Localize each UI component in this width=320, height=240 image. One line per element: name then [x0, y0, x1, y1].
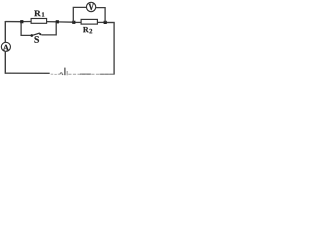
wire left vertical lower: [4, 51, 6, 74]
label S: [34, 36, 39, 43]
battery cell small mark: [60, 73, 63, 75]
wire voltmeter branch right riser: [96, 8, 105, 23]
node 3: [72, 21, 75, 24]
wire node3 to R2: [74, 21, 81, 23]
wire right vertical: [113, 23, 115, 75]
wire voltmeter branch left riser: [73, 7, 86, 22]
wire switch branch left riser: [21, 23, 30, 36]
label R1: [34, 11, 41, 17]
battery long plate: [64, 68, 66, 76]
wire bottom-right horizontal faint dashed: [68, 73, 114, 75]
wire left vertical upper: [4, 21, 6, 43]
node 1: [20, 20, 23, 23]
wire bottom-left horizontal: [5, 72, 49, 74]
wire R2 to node4: [97, 21, 105, 23]
wire R1 to node2: [46, 21, 57, 23]
node 2: [56, 20, 59, 23]
resistor R2: [81, 19, 97, 24]
wire bottom-right horizontal darker segment 1: [80, 73, 91, 75]
ammeter A circle: [1, 42, 10, 51]
voltmeter V letter: [89, 4, 94, 10]
resistor R1: [31, 19, 46, 24]
wire node2 to node3: [58, 21, 75, 23]
switch S left contact: [30, 34, 33, 37]
switch S right contact: [39, 33, 41, 35]
battery dashes left: [51, 73, 54, 75]
voltmeter V circle: [86, 2, 95, 11]
wire switch branch right riser: [41, 23, 56, 35]
label R2: [83, 27, 89, 32]
battery short plate faint: [66, 71, 68, 75]
switch S lever: [33, 33, 40, 35]
wire node4 to top-right corner: [105, 22, 115, 24]
node 4: [104, 21, 107, 24]
wire node1 to R1: [22, 21, 32, 23]
wire bottom-right horizontal darker segment 2: [100, 73, 115, 75]
ammeter A letter: [3, 45, 9, 50]
wire top-left horizontal: [5, 21, 22, 23]
